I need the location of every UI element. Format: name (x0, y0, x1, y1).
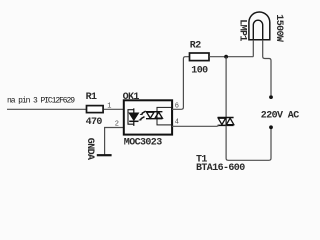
svg-text:R2: R2 (190, 41, 201, 52)
wire: triac MT1 down and right to lower AC terminal (226, 125, 271, 160)
svg-text:GNDA: GNDA (84, 138, 95, 160)
wire: junction down to triac MT2 (225, 57, 227, 117)
svg-text:2: 2 (115, 120, 119, 128)
svg-text:1500W: 1500W (273, 14, 284, 42)
svg-text:4: 4 (175, 118, 179, 126)
svg-text:100: 100 (191, 65, 208, 76)
diac / photo-triac inside OK1 (146, 112, 162, 119)
diac frame (output side capsule) (157, 107, 172, 125)
wire: lamp right leg jog to right rail (263, 40, 271, 96)
wire: OK1 pin 4 to triac gate (172, 125, 219, 128)
lamp filament loop (253, 20, 262, 40)
svg-text:BTA16-600: BTA16-600 (196, 163, 245, 172)
lightning arrow (opto transfer) (139, 111, 146, 120)
resistor R1 (87, 106, 104, 113)
svg-text:1: 1 (107, 103, 111, 111)
LED D1 inside OK1 (129, 108, 138, 126)
wire: R1 to OK1 pin 1 (104, 108, 124, 110)
lamp LMP1 outline (249, 12, 270, 40)
ground GNDA (97, 154, 112, 156)
svg-text:6: 6 (175, 102, 179, 110)
node: AC terminal bottom (269, 125, 273, 129)
resistor R2 (190, 53, 210, 61)
op-to-coupler OK1 box (124, 100, 172, 134)
triac T1 (218, 118, 234, 126)
node: AC terminal top (269, 95, 273, 99)
wire: lamp left leg down to R2 net (252, 40, 254, 57)
svg-text:220V AC: 220V AC (261, 110, 299, 121)
svg-text:R1: R1 (86, 92, 97, 103)
wire: OK1 pin 6 up to R2 (172, 57, 190, 110)
svg-text:LMP1: LMP1 (236, 19, 247, 41)
svg-text:470: 470 (86, 117, 103, 128)
svg-text:OK1: OK1 (123, 92, 140, 103)
svg-text:MOC3023: MOC3023 (124, 137, 162, 148)
LED frame (input side bracket) (128, 110, 134, 125)
junction node (224, 55, 228, 59)
wire: R2 to lamp left leg (209, 56, 253, 58)
wire: input net from left edge to R1 (7, 108, 87, 110)
wire: OK1 pin 2 to ground (105, 128, 124, 155)
svg-text:na pin 3 PIC12F629: na pin 3 PIC12F629 (7, 96, 75, 105)
